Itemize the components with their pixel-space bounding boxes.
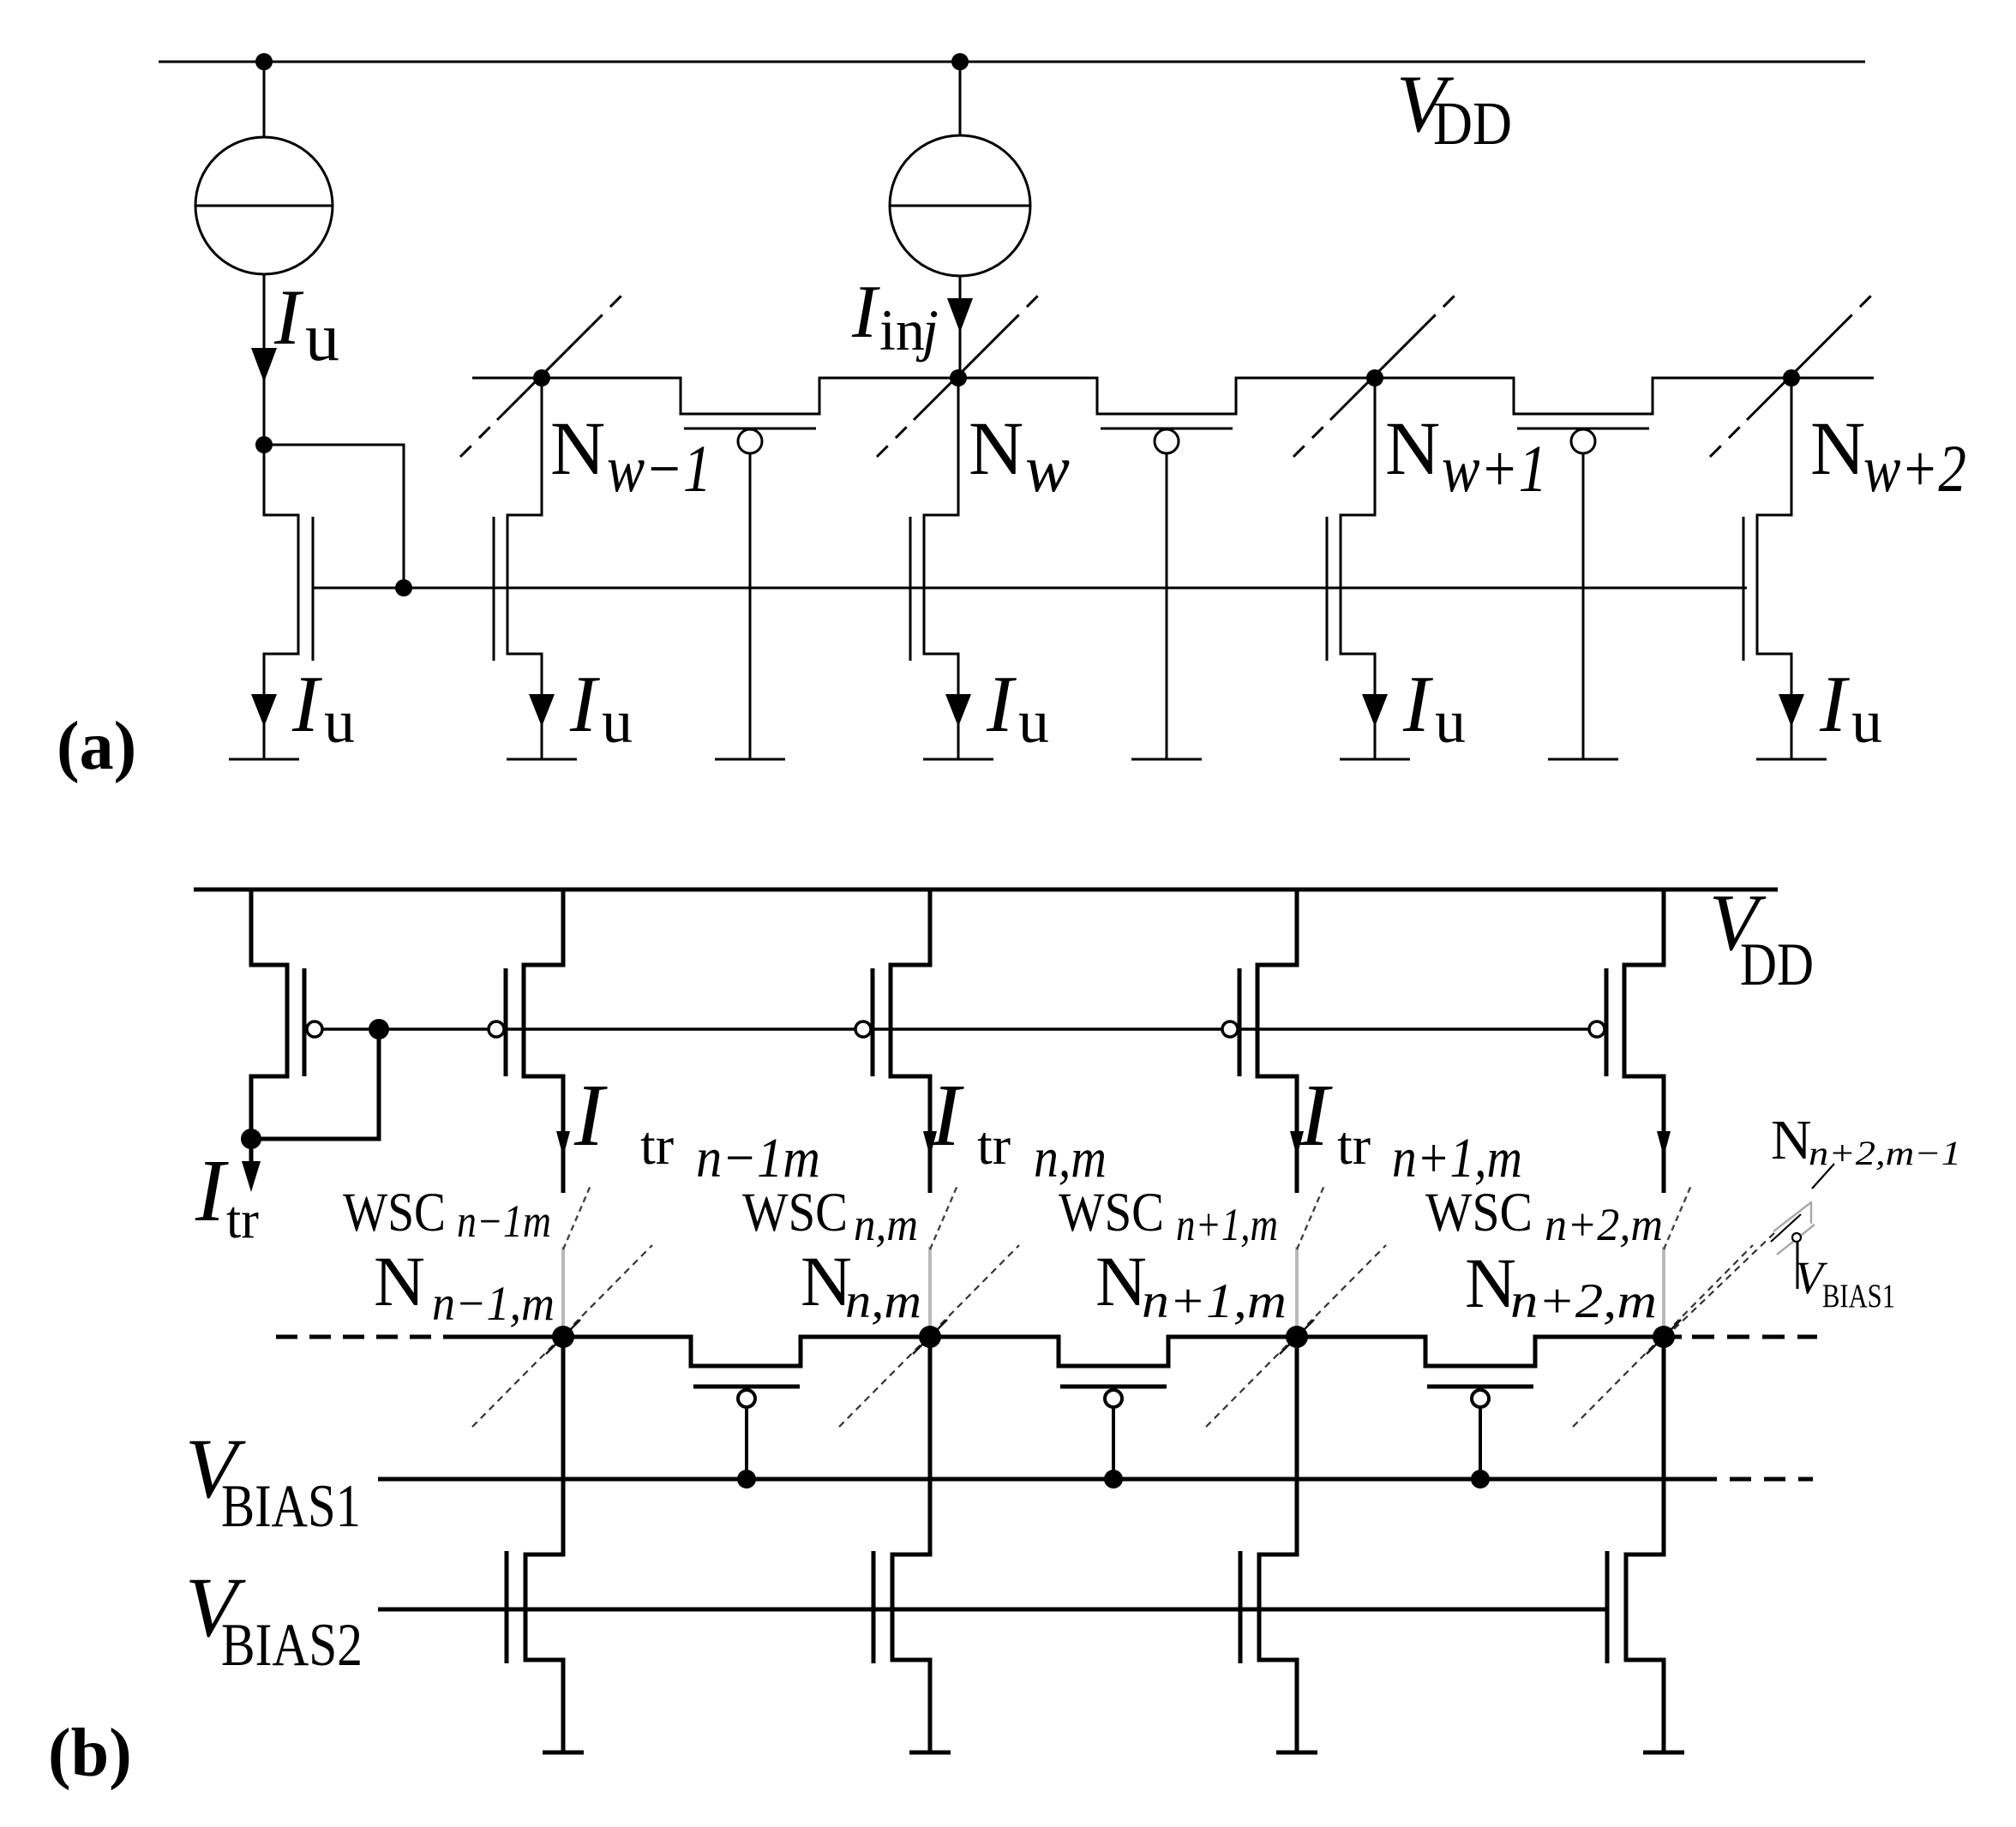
svg-text:WSC: WSC bbox=[742, 1182, 848, 1243]
svg-text:N: N bbox=[801, 1242, 852, 1321]
svg-text:n+2,m: n+2,m bbox=[1545, 1199, 1663, 1250]
svg-text:w+1: w+1 bbox=[1442, 431, 1547, 506]
svg-text:n,m: n,m bbox=[845, 1274, 921, 1328]
svg-text:N: N bbox=[1465, 1243, 1516, 1322]
svg-text:tr: tr bbox=[640, 1115, 674, 1176]
svg-text:I: I bbox=[273, 273, 304, 361]
svg-text:u: u bbox=[324, 687, 355, 756]
svg-text:N: N bbox=[1771, 1109, 1812, 1171]
svg-text:N: N bbox=[1095, 1242, 1147, 1321]
svg-text:n+2,m: n+2,m bbox=[1510, 1274, 1657, 1328]
svg-text:n+1,m: n+1,m bbox=[1142, 1274, 1287, 1328]
svg-text:I: I bbox=[573, 1066, 608, 1165]
svg-text:n,m: n,m bbox=[1034, 1127, 1107, 1189]
svg-text:n+2,m−1: n+2,m−1 bbox=[1809, 1134, 1961, 1172]
svg-text:n−1m: n−1m bbox=[696, 1127, 820, 1189]
svg-text:w+2: w+2 bbox=[1863, 431, 1966, 506]
svg-text:(b): (b) bbox=[48, 1716, 132, 1791]
svg-text:n,m: n,m bbox=[854, 1199, 918, 1250]
svg-text:BIAS1: BIAS1 bbox=[221, 1473, 361, 1540]
svg-text:I: I bbox=[569, 660, 600, 749]
svg-text:w−1: w−1 bbox=[607, 431, 711, 506]
svg-text:BIAS1: BIAS1 bbox=[1822, 1278, 1895, 1315]
svg-text:N: N bbox=[969, 407, 1023, 491]
svg-text:I: I bbox=[1819, 660, 1850, 749]
svg-text:N: N bbox=[1385, 407, 1440, 491]
svg-text:I: I bbox=[930, 1066, 964, 1165]
svg-text:n+1,m: n+1,m bbox=[1176, 1199, 1278, 1250]
svg-text:I: I bbox=[851, 271, 880, 354]
svg-text:(a): (a) bbox=[57, 709, 136, 784]
svg-text:u: u bbox=[602, 687, 633, 756]
svg-text:in: in bbox=[879, 297, 925, 362]
svg-text:WSC: WSC bbox=[1425, 1182, 1533, 1243]
svg-text:WSC: WSC bbox=[343, 1182, 446, 1243]
svg-text:tr: tr bbox=[226, 1191, 259, 1249]
svg-text:n−1,m: n−1,m bbox=[432, 1277, 555, 1331]
svg-text:I: I bbox=[291, 660, 322, 749]
svg-text:w: w bbox=[1025, 431, 1070, 506]
svg-text:u: u bbox=[1018, 687, 1049, 756]
svg-text:I: I bbox=[195, 1141, 229, 1240]
svg-text:WSC: WSC bbox=[1059, 1182, 1164, 1243]
svg-text:I: I bbox=[1299, 1066, 1333, 1165]
svg-text:n−1m: n−1m bbox=[457, 1195, 551, 1247]
svg-text:n+1,m: n+1,m bbox=[1392, 1127, 1522, 1189]
svg-text:u: u bbox=[1435, 687, 1466, 756]
svg-text:u: u bbox=[305, 300, 339, 375]
svg-text:N: N bbox=[550, 407, 605, 491]
svg-text:I: I bbox=[1402, 660, 1433, 749]
svg-text:tr: tr bbox=[1337, 1115, 1371, 1176]
svg-text:I: I bbox=[986, 660, 1017, 749]
svg-text:tr: tr bbox=[977, 1115, 1011, 1176]
svg-text:BIAS2: BIAS2 bbox=[221, 1612, 363, 1679]
svg-text:N: N bbox=[374, 1242, 425, 1321]
svg-text:DD: DD bbox=[1740, 931, 1814, 998]
svg-text:N: N bbox=[1810, 407, 1865, 491]
svg-text:u: u bbox=[1851, 687, 1882, 756]
svg-text:DD: DD bbox=[1433, 89, 1512, 158]
